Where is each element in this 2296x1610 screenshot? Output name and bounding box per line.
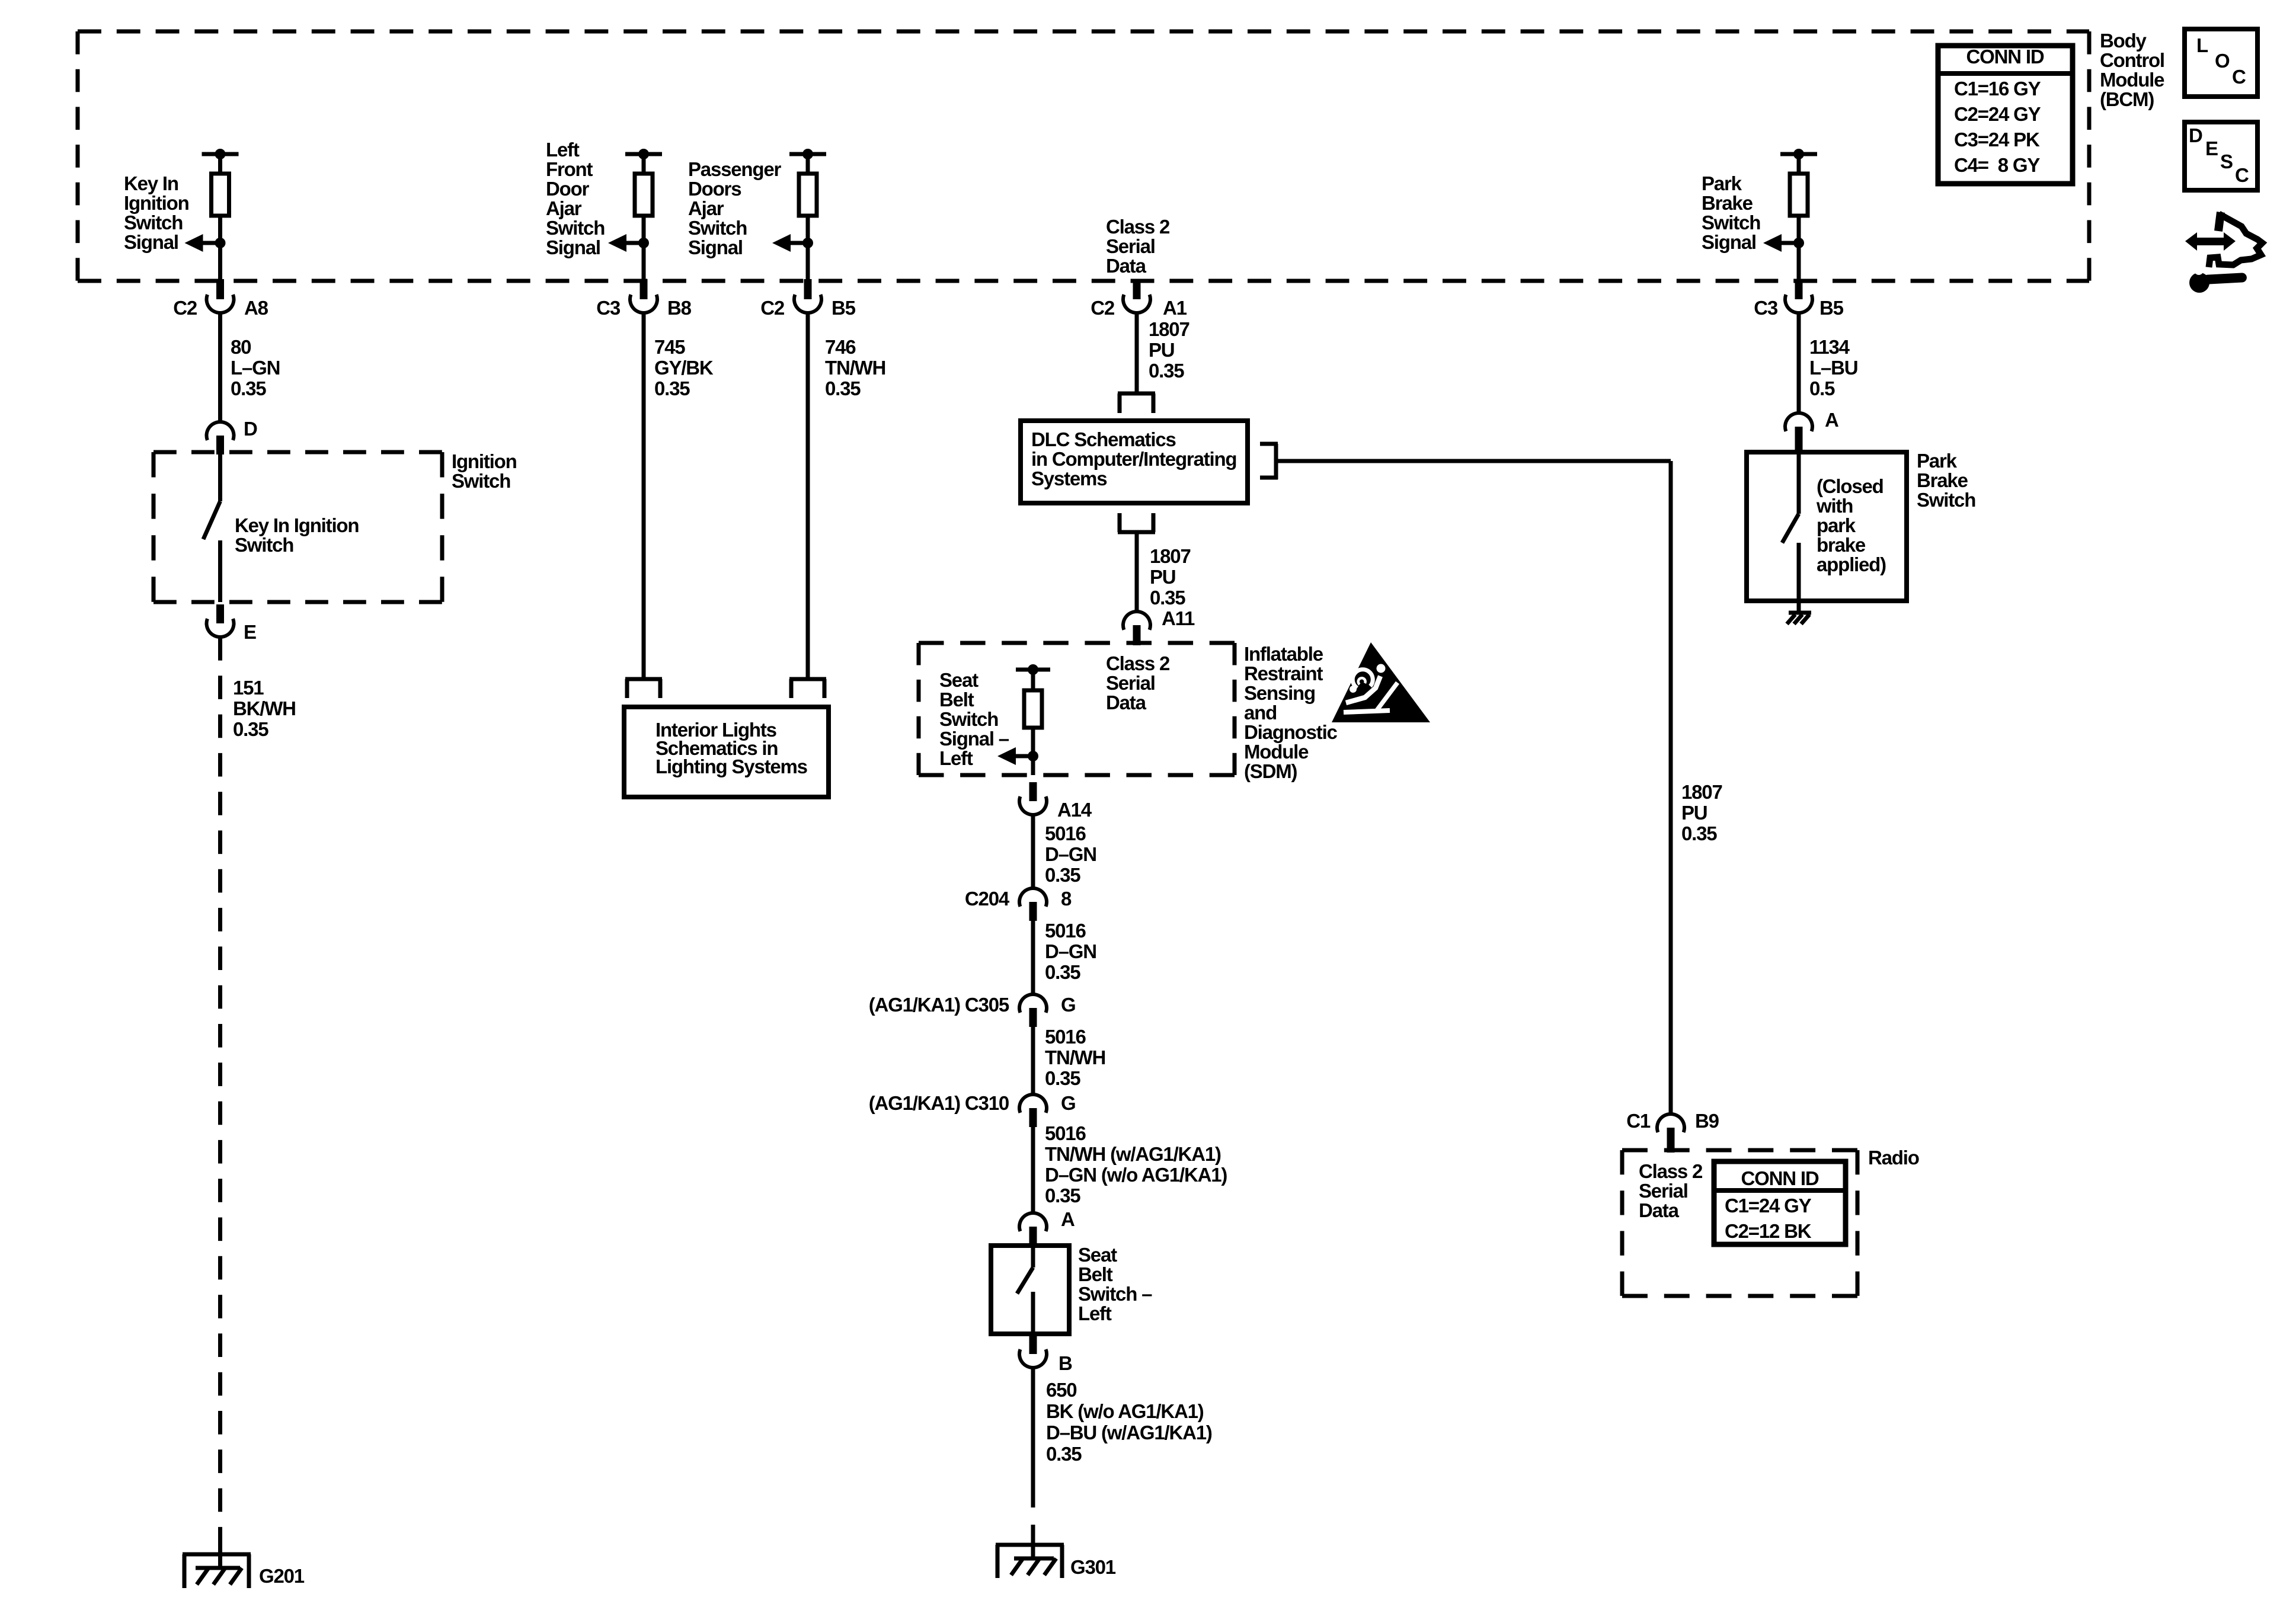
svg-text:L: L <box>2196 34 2208 56</box>
connector E at ignition switch <box>207 604 257 643</box>
svg-text:C204: C204 <box>965 888 1010 910</box>
resistor - seat belt switch signal pull-up (SDM) <box>997 664 1050 775</box>
svg-text:E: E <box>244 621 256 643</box>
switch - Key In Ignition Switch <box>203 454 220 602</box>
resistor - Left Front Door Ajar Switch Signal pull-up <box>608 149 662 281</box>
svg-text:C1: C1 <box>1626 1110 1651 1132</box>
connector C2/B5 at BCM <box>760 279 855 319</box>
svg-text:Interior LightsSchematics inLi: Interior LightsSchematics inLighting Sys… <box>655 719 807 777</box>
Body Control Module (BCM) dashed box <box>78 31 2089 281</box>
connector C310 <box>869 1092 1076 1127</box>
svg-text:1134L–BU0.5: 1134L–BU0.5 <box>1809 336 1857 399</box>
svg-text:B5: B5 <box>832 297 856 319</box>
label wire 745 GY/BK 0.35 <box>654 336 714 399</box>
wire 5016 TN/WH / D-GN (C310 to seat belt switch) <box>1031 1127 1035 1213</box>
svg-text:D: D <box>244 418 257 440</box>
connector C3/B5 at BCM (park brake) <box>1754 279 1843 319</box>
svg-text:1807PU0.35: 1807PU0.35 <box>1681 781 1722 844</box>
switch - seat belt switch left <box>1017 1248 1033 1334</box>
svg-text:G: G <box>1061 994 1075 1016</box>
DESC box <box>2185 122 2257 190</box>
connector C204 <box>965 888 1072 921</box>
label Ignition Switch <box>452 450 517 492</box>
svg-text:5016D–GN0.35: 5016D–GN0.35 <box>1045 920 1096 983</box>
svg-text:Key InIgnitionSwitchSignal: Key InIgnitionSwitchSignal <box>124 172 189 253</box>
wire 1807 PU (BCM to DLC) <box>1135 312 1139 392</box>
svg-text:B8: B8 <box>667 297 692 319</box>
svg-text:1807PU0.35: 1807PU0.35 <box>1149 318 1189 382</box>
svg-text:G301: G301 <box>1070 1556 1116 1578</box>
label Body Control Module (BCM) <box>2100 30 2164 110</box>
svg-text:S: S <box>2220 151 2233 172</box>
label wire 80 L-GN 0.35 <box>231 336 280 399</box>
wire 5016 D-GN (C204 to C305) <box>1031 921 1035 994</box>
svg-text:151BK/WH0.35: 151BK/WH0.35 <box>233 677 296 740</box>
resistor - Key In Ignition Switch Signal pull-up <box>185 149 239 281</box>
resistor - Park Brake Switch Signal pull-up <box>1763 149 1817 281</box>
wire 1134 L-BU <box>1797 312 1801 413</box>
label Left Front Door Ajar Switch Signal <box>546 139 605 258</box>
svg-text:1807PU0.35: 1807PU0.35 <box>1150 545 1191 609</box>
svg-text:ParkBrakeSwitchSignal: ParkBrakeSwitchSignal <box>1702 172 1760 253</box>
svg-text:SeatBeltSwitch –Left: SeatBeltSwitch –Left <box>1078 1244 1152 1324</box>
svg-text:A11: A11 <box>1162 607 1195 629</box>
resistor - Passenger Doors Ajar Switch Signal pull-up <box>772 149 826 281</box>
svg-text:Radio: Radio <box>1868 1147 1919 1169</box>
svg-text:A: A <box>1061 1208 1075 1230</box>
connector B below seat belt switch <box>1019 1335 1072 1374</box>
label Park Brake Switch Signal <box>1702 172 1760 253</box>
off-page bracket above DLC box <box>1118 393 1155 413</box>
svg-text:C: C <box>2232 66 2246 88</box>
svg-text:746TN/WH0.35: 746TN/WH0.35 <box>825 336 885 399</box>
Radio dashed box <box>1622 1150 1857 1296</box>
wire - class 2 serial data to radio (horizontal+vertical) <box>1276 461 1671 1113</box>
label wire 1807 PU 0.35 (lower) <box>1150 545 1191 609</box>
Seat Belt Switch box <box>991 1246 1069 1334</box>
label wire 151 BK/WH 0.35 <box>233 677 296 740</box>
svg-text:A8: A8 <box>244 297 268 319</box>
svg-text:C2: C2 <box>760 297 785 319</box>
connector A11 at SDM <box>1123 607 1195 645</box>
svg-text:C: C <box>2235 164 2249 186</box>
Ignition Switch dashed box <box>154 452 442 602</box>
svg-text:A: A <box>1825 409 1838 431</box>
svg-text:A1: A1 <box>1163 297 1187 319</box>
label Class 2 Serial Data (radio) <box>1639 1160 1703 1221</box>
wire 151 BK/WH (dashed to ground) <box>218 637 222 1551</box>
connector C1/B9 at radio <box>1626 1110 1719 1153</box>
svg-text:E: E <box>2205 137 2218 159</box>
label Seat Belt Switch - Left <box>1078 1244 1152 1324</box>
connector C2/A1 at BCM <box>1091 279 1187 319</box>
svg-text:G: G <box>1061 1092 1075 1114</box>
svg-text:SeatBeltSwitchSignal –Left: SeatBeltSwitchSignal –Left <box>939 669 1009 769</box>
svg-text:C3: C3 <box>596 297 621 319</box>
connector D at ignition switch <box>207 418 258 454</box>
switch - park brake switch <box>1782 454 1799 601</box>
Interior Lights Schematics box <box>624 707 829 797</box>
svg-text:CONN ID: CONN ID <box>1741 1167 1819 1189</box>
svg-text:C2: C2 <box>173 297 197 319</box>
label Key In Ignition Switch <box>235 514 359 556</box>
connector A at seat belt switch <box>1019 1208 1075 1247</box>
chassis ground below park brake switch <box>1787 601 1811 624</box>
label wire 5016 TN/WH / D-GN 0.35 <box>1045 1122 1227 1206</box>
svg-text:5016TN/WH0.35: 5016TN/WH0.35 <box>1045 1026 1105 1089</box>
SRS warning triangle icon <box>1332 642 1430 722</box>
wrench icon <box>2189 263 2247 293</box>
DLC Schematics box <box>1021 421 1248 503</box>
svg-text:IgnitionSwitch: IgnitionSwitch <box>452 450 517 492</box>
label wire 5016 D-GN 0.35 (1) <box>1045 822 1096 886</box>
wire 1807 PU (DLC to SDM) <box>1135 532 1139 612</box>
connector A at park brake switch <box>1785 409 1838 454</box>
Park Brake Switch box <box>1747 452 1907 601</box>
svg-text:C3: C3 <box>1754 297 1778 319</box>
SDM (Inflatable Restraint Sensing and Diagnostic Module) dashed box <box>919 643 1235 775</box>
off-page bracket to Interior Lights (left) <box>625 679 662 698</box>
connector C3/B8 at BCM <box>596 279 691 319</box>
svg-text:Key In IgnitionSwitch: Key In IgnitionSwitch <box>235 514 359 556</box>
svg-text:5016D–GN0.35: 5016D–GN0.35 <box>1045 822 1096 886</box>
svg-text:A14: A14 <box>1057 799 1092 821</box>
label Inflatable Restraint Sensing and Diagnostic Module (SDM) <box>1244 643 1338 782</box>
connector C2/A8 at BCM <box>173 279 268 319</box>
off-page bracket below DLC box <box>1118 513 1155 532</box>
off-page bracket to Interior Lights (right) <box>789 679 826 698</box>
label Park Brake Switch <box>1917 450 1975 511</box>
label wire 650 BK / D-BU 0.35 <box>1046 1379 1212 1465</box>
label wire 5016 D-GN 0.35 (2) <box>1045 920 1096 983</box>
svg-text:(Closedwithparkbrakeapplied): (Closedwithparkbrakeapplied) <box>1816 475 1886 575</box>
label wire 1807 PU 0.35 (to radio) <box>1681 781 1722 844</box>
svg-text:745GY/BK0.35: 745GY/BK0.35 <box>654 336 714 399</box>
label wire 5016 TN/WH 0.35 <box>1045 1026 1105 1089</box>
svg-text:(AG1/KA1) C305: (AG1/KA1) C305 <box>869 994 1009 1016</box>
connector C305 <box>869 994 1076 1027</box>
BCM CONN ID table <box>1938 46 2073 184</box>
ground G201 <box>183 1535 305 1588</box>
svg-text:O: O <box>2215 50 2230 72</box>
svg-text:B9: B9 <box>1695 1110 1719 1132</box>
svg-text:C1=16 GYC2=24 GYC3=24 PKC4= 8: C1=16 GYC2=24 GYC3=24 PKC4= 8 GY <box>1954 78 2041 176</box>
label wire 1807 PU 0.35 (upper) <box>1149 318 1189 382</box>
svg-text:8: 8 <box>1061 888 1072 910</box>
svg-text:5016TN/WH (w/AG1/KA1)D–GN (w/o: 5016TN/WH (w/AG1/KA1)D–GN (w/o AG1/KA1)0… <box>1045 1122 1227 1206</box>
svg-text:G201: G201 <box>259 1565 305 1587</box>
label Seat Belt Switch Signal - Left <box>939 669 1009 769</box>
svg-text:BodyControlModule(BCM): BodyControlModule(BCM) <box>2100 30 2164 110</box>
svg-text:InflatableRestraintSensingandD: InflatableRestraintSensingandDiagnosticM… <box>1244 643 1338 782</box>
svg-text:Class 2SerialData: Class 2SerialData <box>1639 1160 1703 1221</box>
label (Closed with park brake applied) <box>1816 475 1886 575</box>
svg-text:B5: B5 <box>1819 297 1844 319</box>
wire 5016 D-GN (A14 to C204) <box>1031 815 1035 888</box>
svg-text:CONN ID: CONN ID <box>1966 46 2044 68</box>
label Class 2 Serial Data (BCM) <box>1106 216 1170 277</box>
svg-text:DLC Schematicsin Computer/Inte: DLC Schematicsin Computer/IntegratingSys… <box>1031 428 1236 489</box>
label wire 1134 L-BU 0.5 <box>1809 336 1857 399</box>
ground G301 <box>996 1545 1116 1578</box>
label Key In Ignition Switch Signal <box>124 172 189 253</box>
svg-text:Class 2SerialData: Class 2SerialData <box>1106 652 1170 713</box>
wire 5016 TN/WH (C305 to C310) <box>1031 1027 1035 1094</box>
double-arrow navigation icon <box>2185 232 2236 251</box>
wire 745 GY/BK <box>642 312 646 677</box>
svg-text:(AG1/KA1) C310: (AG1/KA1) C310 <box>869 1092 1009 1114</box>
label Class 2 Serial Data (SDM) <box>1106 652 1170 713</box>
label Passenger Doors Ajar Switch Signal <box>688 158 781 258</box>
svg-text:ParkBrakeSwitch: ParkBrakeSwitch <box>1917 450 1975 511</box>
vehicle-head outline icon <box>2209 212 2262 267</box>
wire 80 L-GN (BCM to ignition switch) <box>218 312 222 422</box>
wire 650 BK / D-BU (to ground) <box>1031 1368 1035 1558</box>
svg-text:LeftFrontDoorAjarSwitchSignal: LeftFrontDoorAjarSwitchSignal <box>546 139 605 258</box>
label wire 746 TN/WH 0.35 <box>825 336 885 399</box>
svg-text:C1=24 GYC2=12 BK: C1=24 GYC2=12 BK <box>1725 1195 1812 1242</box>
svg-text:C2: C2 <box>1091 297 1115 319</box>
wire 746 TN/WH <box>806 312 810 677</box>
svg-text:D: D <box>2189 124 2202 146</box>
svg-text:PassengerDoorsAjarSwitchSignal: PassengerDoorsAjarSwitchSignal <box>688 158 781 258</box>
svg-text:650BK (w/o AG1/KA1)D–BU (w/AG1: 650BK (w/o AG1/KA1)D–BU (w/AG1/KA1)0.35 <box>1046 1379 1212 1465</box>
Radio CONN ID table <box>1714 1161 1846 1244</box>
LOC box <box>2185 29 2257 97</box>
svg-text:B: B <box>1059 1352 1072 1374</box>
off-page bracket right of DLC box <box>1260 444 1278 479</box>
svg-text:80L–GN0.35: 80L–GN0.35 <box>231 336 280 399</box>
connector A14 below SDM <box>1019 782 1092 821</box>
label Radio <box>1868 1147 1919 1169</box>
svg-text:Class 2SerialData: Class 2SerialData <box>1106 216 1170 277</box>
